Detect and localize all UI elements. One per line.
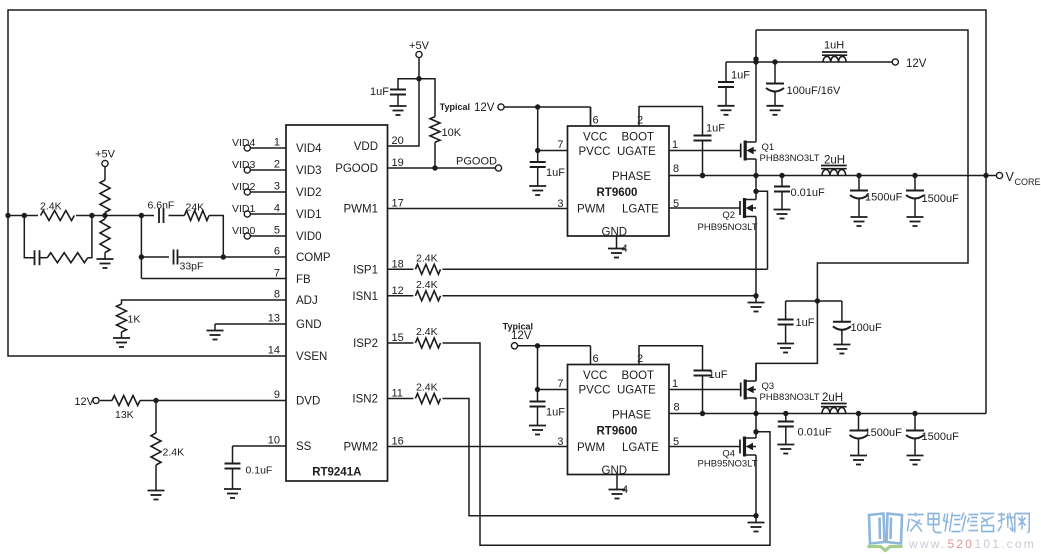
svg-text:PHB95NO3LT: PHB95NO3LT	[698, 222, 758, 233]
svg-text:V: V	[1006, 170, 1015, 184]
svg-text:UGATE: UGATE	[617, 146, 656, 158]
svg-text:12V: 12V	[74, 396, 94, 408]
svg-text:6: 6	[593, 353, 599, 365]
svg-text:SS: SS	[296, 441, 312, 453]
svg-text:VCC: VCC	[583, 132, 607, 144]
svg-text:7: 7	[557, 378, 563, 390]
svg-text:8: 8	[274, 289, 280, 301]
svg-text:2.4K: 2.4K	[416, 382, 438, 394]
svg-text:18: 18	[392, 258, 404, 270]
svg-text:6.6nF: 6.6nF	[148, 200, 175, 212]
svg-text:11: 11	[392, 388, 403, 400]
svg-text:PHASE: PHASE	[612, 171, 651, 183]
svg-text:4: 4	[274, 203, 280, 215]
svg-text:12V: 12V	[511, 330, 532, 342]
svg-text:DVD: DVD	[296, 396, 320, 408]
svg-text:ISP2: ISP2	[353, 338, 378, 350]
svg-text:VID3: VID3	[232, 159, 256, 171]
svg-text:6: 6	[274, 246, 280, 258]
svg-text:VCC: VCC	[583, 370, 607, 382]
svg-text:1K: 1K	[128, 314, 141, 326]
svg-text:ISN2: ISN2	[352, 394, 378, 406]
svg-text:VID4: VID4	[232, 137, 256, 149]
svg-text:1uF: 1uF	[709, 369, 728, 381]
svg-text:Q3: Q3	[762, 381, 775, 392]
svg-text:14: 14	[268, 345, 280, 357]
svg-text:VDD: VDD	[354, 141, 378, 153]
svg-text:PVCC: PVCC	[579, 146, 611, 158]
svg-text:1uH: 1uH	[824, 40, 844, 52]
svg-text:10: 10	[268, 435, 280, 447]
svg-text:PWM: PWM	[577, 204, 605, 216]
svg-text:RT9241A: RT9241A	[312, 467, 361, 479]
svg-text:16: 16	[392, 436, 404, 448]
svg-text:8: 8	[674, 402, 680, 414]
svg-text:VID0: VID0	[296, 231, 322, 243]
svg-text:GND: GND	[296, 319, 322, 331]
svg-text:24K: 24K	[186, 202, 205, 214]
svg-text:CORE: CORE	[1015, 177, 1041, 187]
svg-text:1500uF: 1500uF	[922, 431, 960, 443]
svg-text:2.4K: 2.4K	[163, 447, 185, 459]
svg-text:10K: 10K	[442, 127, 462, 139]
svg-text:VID2: VID2	[232, 181, 256, 193]
svg-text:www.: www.	[908, 537, 946, 551]
svg-text:BOOT: BOOT	[622, 370, 655, 382]
svg-text:3: 3	[274, 181, 280, 193]
svg-text:2.4K: 2.4K	[40, 201, 62, 213]
svg-text:1500uF: 1500uF	[865, 192, 903, 204]
svg-text:13K: 13K	[115, 409, 134, 421]
svg-text:13: 13	[268, 313, 280, 325]
svg-text:2uH: 2uH	[824, 155, 845, 167]
svg-text:UGATE: UGATE	[617, 385, 656, 397]
svg-text:33pF: 33pF	[180, 261, 204, 273]
svg-text:GND: GND	[602, 465, 628, 477]
svg-text:PHB83NO3LT: PHB83NO3LT	[760, 392, 820, 403]
svg-text:ISN1: ISN1	[352, 291, 378, 303]
svg-text:2: 2	[637, 353, 643, 365]
svg-text:7: 7	[274, 268, 280, 280]
svg-text:VID3: VID3	[296, 165, 322, 177]
svg-text:Typical: Typical	[440, 102, 470, 112]
svg-text:VID0: VID0	[232, 225, 256, 237]
svg-text:BOOT: BOOT	[622, 132, 655, 144]
svg-text:VSEN: VSEN	[296, 351, 327, 363]
svg-text:12V: 12V	[474, 102, 495, 114]
svg-text:VID4: VID4	[296, 143, 322, 155]
svg-text:RT9600: RT9600	[597, 187, 638, 199]
svg-text:1500uF: 1500uF	[922, 193, 960, 205]
svg-text:RT9600: RT9600	[597, 426, 638, 438]
svg-text:PHB83NO3LT: PHB83NO3LT	[760, 153, 820, 164]
svg-text:VID2: VID2	[296, 187, 322, 199]
svg-text:0.1uF: 0.1uF	[246, 465, 273, 477]
svg-text:LGATE: LGATE	[622, 442, 659, 454]
svg-text:COMP: COMP	[296, 252, 331, 264]
svg-text:ADJ: ADJ	[296, 295, 318, 307]
svg-text:1uF: 1uF	[796, 317, 815, 329]
svg-text:LGATE: LGATE	[622, 204, 659, 216]
svg-text:1uF: 1uF	[546, 407, 565, 419]
svg-text:PWM: PWM	[577, 442, 605, 454]
svg-text:PWM1: PWM1	[344, 204, 379, 216]
svg-text:100uF: 100uF	[851, 322, 882, 334]
svg-text:6: 6	[593, 115, 599, 127]
svg-text:PGOOD: PGOOD	[456, 156, 497, 168]
svg-text:VID1: VID1	[232, 203, 256, 215]
svg-text:1uF: 1uF	[706, 123, 725, 135]
svg-text:Q2: Q2	[722, 210, 735, 221]
svg-text:+5V: +5V	[409, 40, 430, 52]
svg-text:1uF: 1uF	[370, 86, 389, 98]
svg-text:1500uF: 1500uF	[865, 427, 903, 439]
svg-text:FB: FB	[296, 274, 311, 286]
svg-text:PHB95NO3LT: PHB95NO3LT	[698, 459, 758, 470]
svg-text:100uF/16V: 100uF/16V	[787, 85, 841, 97]
svg-text:7: 7	[557, 139, 563, 151]
svg-text:19: 19	[392, 157, 404, 169]
svg-text:15: 15	[392, 332, 404, 344]
svg-text:+5V: +5V	[95, 149, 116, 161]
svg-text:5: 5	[274, 225, 280, 237]
svg-text:PWM2: PWM2	[344, 442, 379, 454]
svg-text:1: 1	[672, 378, 678, 390]
svg-text:PHASE: PHASE	[612, 410, 651, 422]
svg-text:2.4K: 2.4K	[416, 279, 438, 291]
svg-text:0.01uF: 0.01uF	[791, 187, 826, 199]
svg-text:17: 17	[392, 198, 404, 210]
svg-text:2.4K: 2.4K	[416, 253, 438, 265]
svg-text:101.com: 101.com	[975, 537, 1036, 551]
svg-text:2: 2	[637, 115, 643, 127]
svg-text:PGOOD: PGOOD	[335, 163, 378, 175]
svg-text:GND: GND	[602, 227, 628, 239]
svg-text:12: 12	[392, 285, 404, 297]
svg-text:8: 8	[673, 163, 679, 175]
svg-text:1: 1	[274, 137, 280, 149]
svg-text:1uF: 1uF	[546, 167, 565, 179]
svg-text:PVCC: PVCC	[579, 385, 611, 397]
svg-text:12V: 12V	[906, 58, 927, 70]
svg-text:2: 2	[274, 159, 280, 171]
svg-text:VID1: VID1	[296, 209, 322, 221]
svg-text:1uF: 1uF	[731, 70, 750, 82]
svg-text:ISP1: ISP1	[353, 264, 378, 276]
svg-text:20: 20	[392, 135, 404, 147]
svg-text:1: 1	[672, 139, 678, 151]
svg-text:9: 9	[274, 389, 280, 401]
svg-text:520: 520	[948, 537, 975, 551]
svg-text:2.4K: 2.4K	[416, 326, 438, 338]
svg-text:2uH: 2uH	[822, 392, 843, 404]
svg-text:0.01uF: 0.01uF	[798, 427, 833, 439]
svg-text:Q1: Q1	[762, 142, 775, 153]
